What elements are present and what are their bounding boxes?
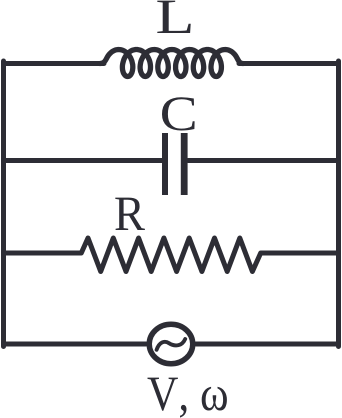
capacitor C left plate [162, 133, 168, 195]
wire bottom-right segment [196, 342, 339, 347]
wire top-left segment [4, 61, 105, 66]
wire capacitor branch right [188, 158, 339, 163]
wire left rail [1, 61, 6, 347]
inductor L coil [100, 50, 243, 77]
resistor R zigzag with leads [4, 238, 339, 272]
AC source V ellipse [149, 324, 193, 364]
wire right rail [336, 61, 341, 347]
label C [162, 97, 195, 130]
AC source tilde [157, 339, 186, 350]
wire capacitor branch left [4, 158, 163, 163]
label L [157, 1, 190, 33]
label R [115, 198, 145, 230]
wire top-right segment [239, 61, 339, 66]
capacitor C right plate [181, 133, 188, 195]
label V, omega [148, 378, 227, 418]
wire bottom-left segment [4, 342, 147, 347]
